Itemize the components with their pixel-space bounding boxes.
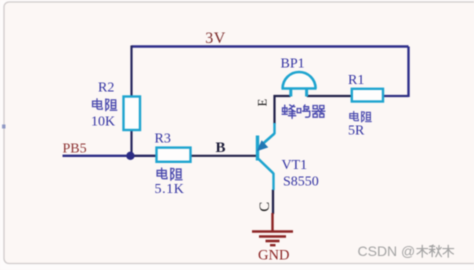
ground bar 3 (266, 240, 280, 243)
wire 3V top rail (132, 45, 409, 47)
resistor R2 body (124, 97, 141, 131)
svg-text:PB5: PB5 (63, 142, 87, 157)
svg-text:VT1: VT1 (282, 158, 308, 173)
svg-text:R2: R2 (98, 81, 114, 96)
ground bar 2 (259, 235, 286, 238)
svg-text:C: C (257, 202, 273, 212)
wire R2 bottom to junction (130, 130, 132, 157)
svg-text:B: B (216, 140, 226, 156)
svg-text:E: E (256, 98, 270, 106)
svg-text:CSDN @: CSDN @ (358, 243, 416, 259)
transistor VT1 emitter diagonal (258, 134, 275, 149)
transistor VT1 emitter arrow (PNP) (258, 141, 267, 150)
comment text of R2: dian zu (93, 99, 117, 111)
wire emitter vertical and horizontal to buzzer/R1 (275, 96, 291, 124)
svg-text:R1: R1 (348, 73, 364, 88)
ground bar 4 (270, 244, 276, 246)
wire junction to R3 (132, 155, 158, 157)
wire buzzer right pin to R1 (307, 95, 352, 97)
wire PB5 net to junction and R3 (63, 155, 132, 157)
stray blue speck on left edge (2, 125, 6, 129)
comment text of R1: dian zu (350, 111, 371, 122)
buzzer BP1 pin 2 (305, 89, 308, 97)
transistor VT1 emitter pin vertical (273, 123, 275, 134)
svg-text:5R: 5R (348, 124, 365, 139)
svg-text:R3: R3 (155, 132, 171, 147)
svg-text:5.1K: 5.1K (155, 182, 185, 197)
wire collector vertical (272, 190, 274, 215)
junction dot (126, 152, 134, 160)
svg-text:GND: GND (258, 248, 289, 264)
watermark mu qiu mu (417, 245, 454, 257)
buzzer BP1 base line (282, 87, 317, 90)
wire left vertical from rail to R2 (130, 46, 132, 98)
svg-text:BP1: BP1 (281, 57, 305, 72)
wire right vertical up to rail (407, 47, 409, 98)
svg-text:3V: 3V (205, 30, 225, 47)
wire R3 to transistor base (190, 155, 257, 157)
buzzer BP1 dome (283, 72, 316, 89)
svg-text:10K: 10K (91, 115, 115, 130)
ground bar 1 (252, 230, 293, 233)
svg-text:S8550: S8550 (283, 175, 319, 190)
resistor R1 body (352, 89, 383, 102)
transistor VT1 collector diagonal (258, 159, 274, 174)
comment text of BP1: feng ming qi (282, 105, 325, 119)
ground stub wire (271, 213, 273, 231)
transistor VT1 collector pin vertical (272, 173, 274, 190)
resistor R3 body (157, 148, 191, 162)
comment text of R3: dian zu (157, 168, 182, 180)
transistor VT1 base bar (256, 136, 259, 161)
wire R1 right to corner (383, 95, 409, 97)
buzzer BP1 pin 1 (289, 89, 292, 97)
